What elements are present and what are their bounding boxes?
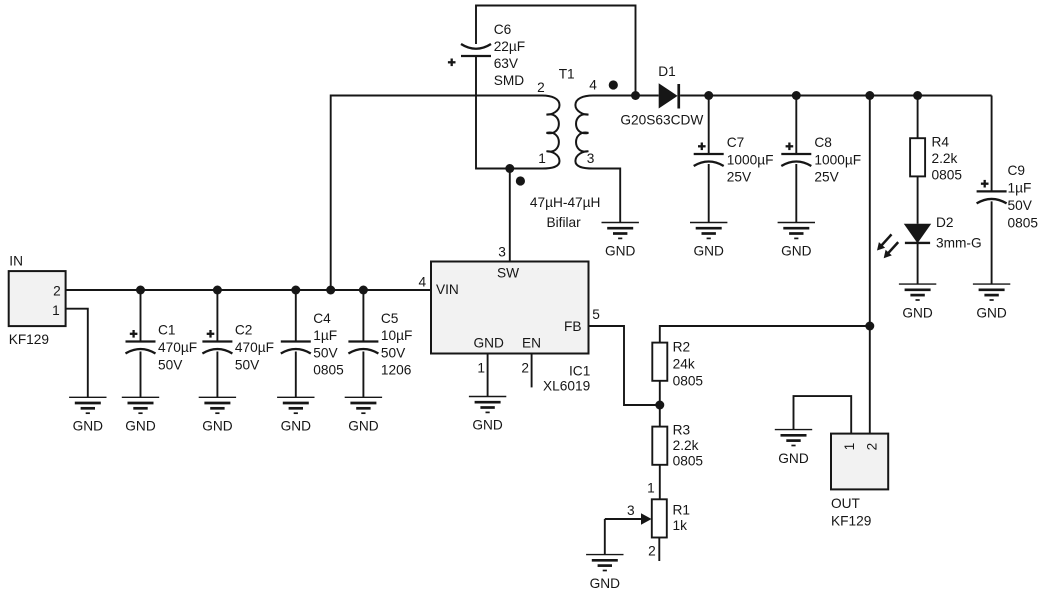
svg-text:VIN: VIN bbox=[436, 282, 459, 297]
capacitor C9 1uF 50V 0805 bbox=[977, 180, 1007, 204]
wire wiper to ground bbox=[604, 519, 606, 555]
svg-text:C9: C9 bbox=[1008, 163, 1026, 178]
svg-text:3: 3 bbox=[498, 245, 506, 260]
svg-text:5: 5 bbox=[592, 307, 600, 322]
capacitor C6 22uF 63V SMD bbox=[448, 44, 491, 66]
label R2 value bbox=[673, 339, 704, 388]
svg-text:C8: C8 bbox=[814, 135, 832, 150]
svg-text:50V: 50V bbox=[158, 357, 183, 372]
wire bus to C1 bbox=[140, 290, 142, 342]
svg-text:1: 1 bbox=[52, 303, 60, 318]
capacitor C1 470uF 50V bbox=[126, 330, 156, 354]
wire top loop bbox=[476, 6, 636, 96]
resistor R4 2.2k 0805 bbox=[910, 138, 925, 176]
svg-text:GND: GND bbox=[781, 244, 812, 259]
svg-text:GND: GND bbox=[976, 305, 1007, 320]
connector J-OUT KF129 bbox=[831, 434, 888, 490]
wire output rail bbox=[680, 95, 992, 97]
svg-text:470µF: 470µF bbox=[158, 340, 197, 355]
svg-text:10µF: 10µF bbox=[381, 328, 412, 343]
svg-text:47µH-47µH: 47µH-47µH bbox=[530, 195, 601, 210]
ground D2 bbox=[899, 284, 936, 320]
svg-text:25V: 25V bbox=[727, 170, 752, 185]
ground C8 bbox=[778, 223, 815, 259]
node junction C1 bbox=[136, 286, 145, 295]
node junction SW bbox=[505, 164, 514, 173]
svg-text:22µF: 22µF bbox=[494, 39, 525, 54]
svg-text:T1: T1 bbox=[559, 67, 575, 82]
svg-text:1µF: 1µF bbox=[1008, 181, 1032, 196]
label C2 value bbox=[235, 323, 274, 373]
capacitor C2 470uF 50V bbox=[202, 330, 232, 354]
wire SW riser bbox=[509, 169, 511, 262]
svg-text:D2: D2 bbox=[936, 215, 954, 230]
svg-text:C7: C7 bbox=[727, 135, 745, 150]
label OUT name bbox=[831, 496, 871, 529]
node junction FB divider bbox=[655, 401, 664, 410]
svg-text:GND: GND bbox=[202, 419, 233, 434]
svg-text:1206: 1206 bbox=[381, 363, 412, 378]
svg-text:1k: 1k bbox=[673, 518, 688, 533]
svg-text:2: 2 bbox=[537, 80, 545, 95]
wire D2 to ground bbox=[917, 243, 919, 284]
svg-text:D1: D1 bbox=[658, 64, 676, 79]
svg-text:IC1: IC1 bbox=[569, 364, 590, 379]
wire C7 to ground bbox=[708, 164, 710, 223]
svg-text:2: 2 bbox=[648, 544, 656, 559]
wire C2 to ground bbox=[216, 352, 218, 398]
potentiometer R1 1k bbox=[652, 499, 667, 537]
svg-text:C4: C4 bbox=[313, 311, 331, 326]
svg-text:50V: 50V bbox=[381, 345, 406, 360]
svg-text:0805: 0805 bbox=[1008, 215, 1039, 230]
svg-text:GND: GND bbox=[605, 244, 636, 259]
label R4 value bbox=[932, 135, 963, 183]
svg-text:1µF: 1µF bbox=[313, 328, 337, 343]
svg-text:GND: GND bbox=[348, 419, 379, 434]
wire C4 to ground bbox=[295, 352, 297, 398]
svg-text:C2: C2 bbox=[235, 323, 253, 338]
wiper arrow R1 bbox=[605, 513, 652, 524]
label C5 value bbox=[381, 311, 412, 378]
wire bus to C5 bbox=[362, 290, 364, 342]
node junction C4 bbox=[291, 286, 300, 295]
svg-text:GND: GND bbox=[474, 336, 505, 351]
resistor R2 24k 0805 bbox=[652, 343, 667, 381]
wire bus riser to T1 pin2 bbox=[331, 96, 542, 291]
label T1 inductance bbox=[530, 195, 601, 230]
svg-text:1: 1 bbox=[477, 361, 485, 376]
svg-text:R1: R1 bbox=[673, 502, 691, 517]
svg-text:2: 2 bbox=[53, 284, 61, 299]
ground C9 bbox=[973, 284, 1010, 320]
wire IC1 GND pin bbox=[487, 354, 489, 397]
svg-text:GND: GND bbox=[73, 419, 104, 434]
svg-text:1: 1 bbox=[842, 443, 857, 451]
svg-text:GND: GND bbox=[778, 451, 809, 466]
label C4 value bbox=[313, 311, 344, 378]
svg-text:50V: 50V bbox=[1008, 198, 1033, 213]
svg-text:2.2k: 2.2k bbox=[673, 438, 699, 453]
svg-text:470µF: 470µF bbox=[235, 340, 274, 355]
svg-text:25V: 25V bbox=[814, 170, 839, 185]
svg-text:OUT: OUT bbox=[831, 496, 861, 511]
svg-text:GND: GND bbox=[902, 305, 933, 320]
node junction C7 bbox=[704, 91, 713, 100]
wire C1 to ground bbox=[140, 352, 142, 398]
op-amp IC1 XL6019 bbox=[431, 262, 589, 354]
svg-text:GND: GND bbox=[590, 576, 621, 591]
label R1 value bbox=[673, 502, 691, 533]
wire C5 to ground bbox=[362, 352, 364, 398]
svg-text:GND: GND bbox=[281, 419, 312, 434]
node junction C2 bbox=[213, 286, 222, 295]
node junction R4 bbox=[913, 91, 922, 100]
svg-text:1: 1 bbox=[538, 151, 546, 166]
label C6 value bbox=[494, 22, 525, 88]
svg-text:0805: 0805 bbox=[313, 363, 344, 378]
wire R1 pin 2 open bbox=[658, 538, 660, 561]
ground T1 pin3 bbox=[602, 223, 639, 259]
svg-text:0805: 0805 bbox=[673, 453, 704, 468]
label D2 bbox=[936, 215, 982, 251]
wire T1 pin4 to D1 bbox=[593, 95, 659, 97]
polarity dot T1 primary bbox=[516, 176, 525, 185]
wire bus to C4 bbox=[295, 290, 297, 342]
label C9 value bbox=[1008, 163, 1039, 230]
svg-text:50V: 50V bbox=[235, 357, 260, 372]
svg-text:GND: GND bbox=[125, 419, 156, 434]
ground IC1 bbox=[469, 397, 506, 433]
svg-text:1000µF: 1000µF bbox=[727, 152, 774, 167]
node junction riser bbox=[326, 286, 335, 295]
capacitor C8 1000uF 25V bbox=[781, 143, 811, 167]
wire main input bus bbox=[141, 289, 432, 291]
capacitor C4 1uF 50V 0805 bbox=[281, 342, 311, 354]
label C7 value bbox=[727, 135, 774, 184]
wire node to R3 bbox=[659, 405, 661, 427]
resistor R3 2.2k 0805 bbox=[652, 427, 667, 465]
svg-text:2: 2 bbox=[521, 361, 529, 376]
svg-text:63V: 63V bbox=[494, 56, 519, 71]
svg-text:Bifilar: Bifilar bbox=[547, 215, 582, 230]
svg-text:2.2k: 2.2k bbox=[932, 151, 958, 166]
ground IN bbox=[69, 397, 106, 433]
LED D2 3mm-G bbox=[877, 224, 931, 258]
wire IN pin1 to ground bbox=[66, 309, 88, 398]
ground C2 bbox=[199, 397, 236, 433]
wire OUT pin1 to ground bbox=[794, 396, 852, 434]
svg-text:C1: C1 bbox=[158, 323, 176, 338]
svg-text:FB: FB bbox=[564, 319, 582, 334]
svg-text:XL6019: XL6019 bbox=[543, 379, 590, 394]
svg-text:4: 4 bbox=[589, 77, 597, 92]
label IC1 name bbox=[543, 364, 590, 394]
svg-text:0805: 0805 bbox=[673, 374, 704, 389]
capacitor C5 10uF 50V 1206 bbox=[348, 342, 378, 354]
svg-text:IN: IN bbox=[9, 253, 23, 268]
transformer T1 secondary winding bbox=[575, 96, 593, 169]
svg-text:4: 4 bbox=[419, 274, 427, 289]
ground C5 bbox=[345, 397, 382, 433]
svg-text:1000µF: 1000µF bbox=[814, 152, 861, 167]
label C8 value bbox=[814, 135, 861, 184]
diode D1 G20S63CDW bbox=[659, 83, 680, 108]
polarity dot T1 secondary bbox=[609, 80, 618, 89]
svg-text:SMD: SMD bbox=[494, 73, 525, 88]
svg-text:1: 1 bbox=[647, 481, 655, 496]
wire rail to R4 bbox=[917, 96, 919, 139]
ground C7 bbox=[690, 223, 727, 259]
ground OUT bbox=[775, 430, 812, 466]
svg-text:R4: R4 bbox=[932, 135, 950, 150]
wire T1 pin3 to ground bbox=[593, 169, 620, 223]
svg-text:50V: 50V bbox=[313, 345, 338, 360]
ground C4 bbox=[277, 397, 314, 433]
svg-text:24k: 24k bbox=[673, 356, 695, 371]
wire rail corner to C9 bbox=[991, 96, 993, 192]
wire FB to divider bbox=[589, 326, 660, 405]
wire rail to C7 bbox=[708, 96, 710, 155]
wire IN pin2 to bus bbox=[66, 289, 141, 291]
wire C6 to T1 pin1 bbox=[476, 56, 542, 169]
svg-text:3mm-G: 3mm-G bbox=[936, 236, 982, 251]
wire R2 top to output riser bbox=[660, 326, 870, 343]
svg-text:3: 3 bbox=[627, 503, 635, 518]
node junction output riser top bbox=[865, 91, 874, 100]
svg-text:C6: C6 bbox=[494, 22, 512, 37]
svg-text:R3: R3 bbox=[673, 423, 691, 438]
node junction riser mid bbox=[865, 322, 874, 331]
node junction C5 bbox=[359, 286, 368, 295]
wire IC1 EN pin open bbox=[531, 354, 533, 388]
svg-text:G20S63CDW: G20S63CDW bbox=[620, 113, 703, 128]
ground R1 wiper bbox=[586, 555, 623, 591]
node junction loop bbox=[631, 91, 640, 100]
wire R2 to node bbox=[659, 381, 661, 405]
svg-text:KF129: KF129 bbox=[9, 332, 49, 347]
wire R3 to R1 bbox=[659, 465, 661, 500]
svg-text:KF129: KF129 bbox=[831, 514, 871, 529]
wire output riser bbox=[869, 96, 871, 434]
svg-text:2: 2 bbox=[864, 443, 879, 451]
svg-text:EN: EN bbox=[522, 336, 541, 351]
wire rail to C8 bbox=[795, 96, 797, 155]
svg-text:C5: C5 bbox=[381, 311, 399, 326]
wire C8 to ground bbox=[795, 164, 797, 223]
svg-text:SW: SW bbox=[497, 266, 519, 281]
svg-text:0805: 0805 bbox=[932, 167, 963, 182]
wire R4 to D2 bbox=[917, 176, 919, 223]
connector J-IN KF129 bbox=[9, 253, 66, 347]
svg-text:GND: GND bbox=[693, 244, 724, 259]
svg-text:R2: R2 bbox=[673, 339, 691, 354]
wire bus to C2 bbox=[216, 290, 218, 342]
capacitor C7 1000uF 25V bbox=[694, 143, 724, 167]
svg-text:GND: GND bbox=[472, 418, 503, 433]
svg-text:3: 3 bbox=[587, 151, 595, 166]
node junction C8 bbox=[792, 91, 801, 100]
label R3 value bbox=[673, 423, 704, 469]
ground C1 bbox=[122, 397, 159, 433]
label C1 value bbox=[158, 323, 197, 373]
transformer T1 primary winding bbox=[542, 96, 560, 169]
wire C9 to ground bbox=[991, 201, 993, 284]
